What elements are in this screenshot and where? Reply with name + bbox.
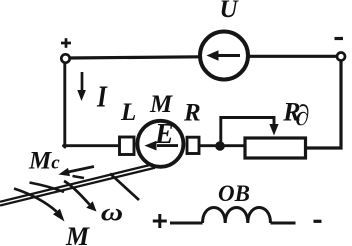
svg-text:I: I — [96, 80, 108, 114]
svg-text:M: M — [65, 222, 90, 246]
svg-text:ω: ω — [101, 199, 123, 226]
svg-text:E: E — [154, 119, 174, 150]
svg-text:Mc: Mc — [28, 148, 60, 175]
svg-text:∂: ∂ — [295, 100, 309, 132]
svg-text:M: M — [149, 91, 173, 118]
svg-text:L: L — [120, 99, 136, 126]
svg-text:U: U — [220, 0, 240, 23]
svg-text:R: R — [183, 100, 201, 127]
svg-text:OB: OB — [218, 181, 250, 206]
